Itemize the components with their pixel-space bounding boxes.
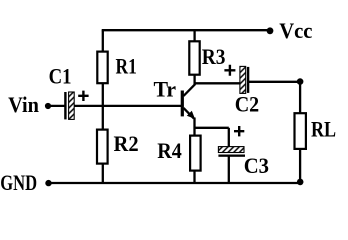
svg-text:R3: R3 [202, 44, 226, 69]
svg-text:Vcc: Vcc [279, 18, 312, 43]
svg-text:R1: R1 [116, 54, 137, 79]
svg-text:Vin: Vin [8, 92, 39, 117]
svg-text:C2: C2 [235, 92, 260, 117]
svg-text:GND: GND [0, 170, 37, 195]
svg-text:C1: C1 [49, 64, 72, 89]
svg-text:R2: R2 [114, 131, 139, 156]
svg-text:R4: R4 [157, 138, 182, 163]
svg-text:RL: RL [311, 116, 336, 141]
svg-text:Tr: Tr [154, 77, 177, 102]
svg-text:C3: C3 [244, 153, 269, 178]
